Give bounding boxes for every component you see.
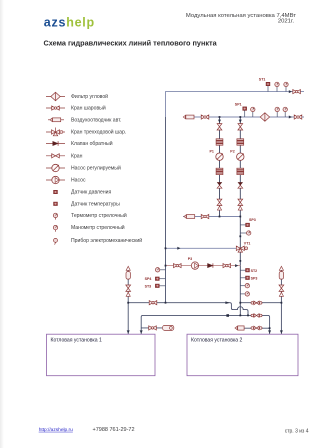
- manometer left riser: [155, 268, 165, 272]
- arrow into collector branch2: [238, 206, 242, 210]
- arrow into boiler2 a: [268, 330, 271, 333]
- flow arrow down branch1: [218, 120, 221, 123]
- svg-text:ST3: ST3: [145, 284, 152, 288]
- node rowB left: [226, 314, 229, 317]
- node branch2 top: [239, 116, 241, 118]
- legend dial manometer: [53, 225, 57, 231]
- ball valve P3 left: [174, 264, 182, 268]
- wire: branch 1 vertical: [219, 117, 221, 217]
- twin valves rowB: [251, 314, 262, 318]
- wire: branch 2 / main riser vertical: [239, 117, 241, 315]
- sensor SP4: [145, 277, 166, 281]
- wire: return main line top: [166, 92, 305, 117]
- svg-text:Воздухоотводчик авт.: Воздухоотводчик авт.: [71, 117, 121, 123]
- valve branch1 top: [217, 124, 222, 130]
- wire: VT1 mixing line: [166, 247, 237, 249]
- manometer line 2 left: [251, 107, 255, 117]
- flex insert branch1 upper: [216, 139, 223, 145]
- wire: collector line: [183, 216, 240, 218]
- svg-text:Кран трехходовой шар.: Кран трехходовой шар.: [71, 129, 126, 136]
- sensor ST1: [259, 77, 270, 91]
- boiler unit 2 box: [187, 334, 298, 376]
- legend air vent: [48, 118, 64, 122]
- arrow into boiler1 b: [140, 330, 143, 333]
- twin valves rowA: [251, 301, 262, 305]
- arrow into boiler1 a: [127, 330, 130, 333]
- sensor ST2: [240, 269, 257, 273]
- svg-text:P3: P3: [188, 257, 192, 261]
- svg-text:ST2: ST2: [251, 269, 258, 273]
- boiler unit 1 box: [47, 334, 156, 376]
- svg-text:SP1: SP1: [235, 103, 242, 107]
- wire: boiler2 vent riser: [280, 268, 282, 334]
- filter F1: [260, 113, 269, 122]
- svg-text:SP4: SP4: [145, 277, 152, 281]
- vent capsule boiler2: [279, 272, 283, 280]
- manometer riser lower 2: [240, 292, 249, 296]
- flow arrow line 2: [289, 116, 292, 119]
- legend pressure sensor: [54, 190, 58, 193]
- legend filter: [46, 92, 65, 101]
- svg-text:Кран: Кран: [71, 153, 83, 159]
- flow arrow supply header: [225, 301, 230, 304]
- node collector b2: [239, 216, 241, 218]
- legend check valve: [46, 141, 65, 145]
- flow arrow VT1 line: [177, 247, 180, 250]
- svg-text:azshelp: azshelp: [44, 15, 95, 29]
- node VT1 line left: [165, 247, 167, 249]
- flow arrow up boiler1: [126, 292, 130, 296]
- wire: row 3 drain line boiler1: [141, 327, 162, 329]
- legend electromechanical device: [54, 238, 58, 244]
- vent valve boiler2: [279, 285, 284, 291]
- wire: row C drain line boiler2: [244, 327, 269, 329]
- flex insert branch2 upper: [237, 139, 244, 145]
- svg-text:P1: P1: [210, 150, 214, 154]
- ball valve line 2 right: [294, 115, 302, 119]
- wire: boiler1 vent riser: [127, 268, 129, 334]
- svg-text:Схема гидравлических линий теп: Схема гидравлических линий теплового пун…: [44, 38, 218, 47]
- wire: row B return header: [141, 315, 269, 334]
- manometer line 2: [283, 107, 287, 117]
- air vent collector: [184, 215, 195, 219]
- check valve P3: [208, 263, 213, 267]
- svg-text:Котловая установка 2: Котловая установка 2: [191, 338, 243, 344]
- ball valve line 2 left: [201, 115, 209, 119]
- svg-text:Котловая установка 1: Котловая установка 1: [51, 338, 103, 344]
- legend three-way valve: [46, 128, 65, 136]
- svg-text:Насос: Насос: [71, 178, 86, 184]
- safety cone boiler2: [279, 266, 283, 270]
- legend temperature sensor: [54, 202, 58, 205]
- svg-text:ST1: ST1: [259, 77, 266, 81]
- pump P3: [188, 257, 199, 269]
- wire: P3 recirculation line: [166, 265, 241, 267]
- manometer on line 1: [284, 82, 288, 91]
- wire: boiler1 supply header with hop over riser: [128, 303, 248, 316]
- check valve branch2: [238, 182, 243, 188]
- node boiler1 supply top: [127, 302, 129, 304]
- manometer riser: [240, 231, 251, 235]
- svg-text:Кран шаровый: Кран шаровый: [71, 105, 106, 112]
- three-way valve VT1: [236, 242, 250, 253]
- svg-text:Прибор электромеханический: Прибор электромеханический: [71, 237, 142, 244]
- sensor ST3: [145, 284, 166, 288]
- vent capsule boiler1: [126, 272, 130, 280]
- arrow into boiler2 b: [280, 330, 283, 333]
- sensor SP3 upper: [240, 218, 255, 226]
- svg-text:стр. 3 из 4: стр. 3 из 4: [285, 428, 309, 434]
- flow arrow down branch2: [239, 120, 242, 123]
- svg-text:Датчик температуры: Датчик температуры: [71, 201, 120, 207]
- legend regulated pump: [46, 164, 65, 171]
- svg-text:2021г.: 2021г.: [278, 19, 295, 25]
- wire: left return riser: [165, 117, 167, 303]
- flow arrow P3: [235, 264, 238, 267]
- thermometer line 2: [275, 107, 279, 117]
- svg-text:P2: P2: [230, 150, 234, 154]
- arrow into collector branch1: [217, 206, 221, 210]
- legend pump: [46, 176, 65, 183]
- flex insert branch1 lower: [216, 168, 223, 174]
- valve boiler1 supply: [149, 301, 157, 305]
- node hop join rowB: [247, 315, 249, 317]
- thermometer on line 1: [275, 82, 279, 91]
- node P3 junction on riser: [239, 260, 241, 262]
- node P3 line left: [165, 265, 167, 267]
- svg-text:Манометр стрелочный: Манометр стрелочный: [71, 224, 125, 231]
- ball valve P3 right: [223, 264, 231, 268]
- vent valve boiler1: [126, 285, 131, 291]
- safety cone boiler1: [126, 266, 130, 270]
- ball valve line 1: [293, 90, 301, 94]
- valve branch2 top: [238, 124, 243, 130]
- svg-text:+7988 761-29-72: +7988 761-29-72: [93, 427, 135, 433]
- flex insert branch2 lower: [237, 168, 244, 174]
- svg-text:Датчик давления: Датчик давления: [71, 190, 112, 196]
- valve branch1 bottom: [217, 199, 222, 205]
- svg-text:Фильтр угловой: Фильтр угловой: [71, 93, 108, 100]
- twin valves rowC: [251, 326, 262, 330]
- legend ball valve: [46, 106, 65, 110]
- svg-text:SP3: SP3: [249, 218, 256, 222]
- svg-text:Клапан обратный: Клапан обратный: [71, 140, 113, 147]
- flow arrow line 1: [289, 90, 292, 93]
- node boiler2 vent riser: [281, 302, 283, 304]
- wire: supply line 2: [184, 116, 304, 118]
- legend valve: [46, 154, 65, 158]
- node rowC join: [269, 327, 271, 329]
- valve branch2 bottom: [238, 199, 243, 205]
- svg-text:Насос регулируемый: Насос регулируемый: [71, 165, 121, 172]
- valve row3 boiler1 drain: [149, 326, 157, 330]
- node branch1 top: [219, 116, 221, 118]
- wire: row A right to boiler2 vent riser: [240, 302, 281, 304]
- node riser rowB: [239, 315, 241, 317]
- capsule row3 drain: [163, 325, 174, 330]
- check valve branch1: [217, 182, 222, 188]
- node collector b1: [219, 216, 221, 218]
- node above VT1: [239, 235, 241, 237]
- sensor SP3 lower: [240, 276, 257, 280]
- ball valve collector: [201, 214, 209, 218]
- node riser rowA: [239, 302, 241, 304]
- svg-text:SP3: SP3: [251, 277, 258, 281]
- svg-text:VT1: VT1: [244, 242, 251, 246]
- sensor SP1: [235, 103, 247, 117]
- node left riser bottom: [165, 302, 167, 304]
- legend dial thermometer: [53, 213, 57, 219]
- manometer riser lower 1: [240, 284, 249, 288]
- flow arrow boiler2: [279, 292, 283, 296]
- air vent line 2: [183, 115, 194, 119]
- air vent rowC: [235, 326, 244, 330]
- svg-text:http://azshelp.ru: http://azshelp.ru: [39, 427, 73, 433]
- svg-text:Термометр стрелочный: Термометр стрелочный: [71, 212, 127, 219]
